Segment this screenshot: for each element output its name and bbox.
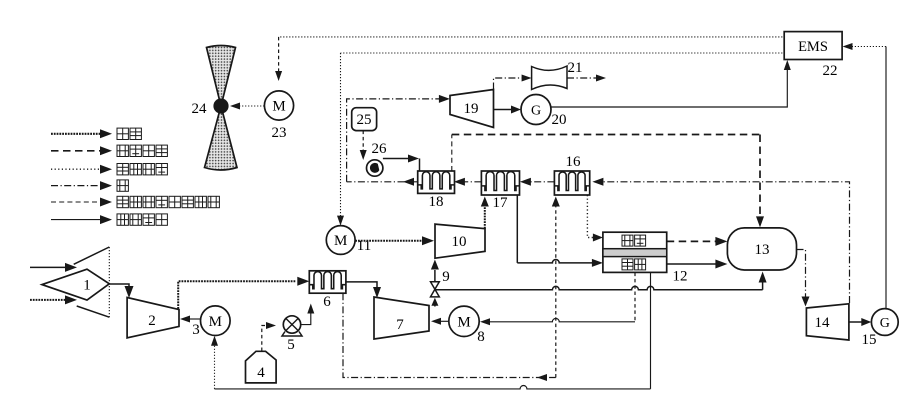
wire valve 9 to compressor 10 — [431, 260, 439, 282]
compressor 7 — [374, 297, 429, 339]
svg-text:G: G — [531, 104, 541, 119]
fuel cell 12 — [603, 232, 688, 284]
svg-text:1: 1 — [83, 278, 91, 294]
wire fuel heat exchanger 18 out — [452, 135, 764, 228]
svg-text:22: 22 — [823, 63, 838, 79]
svg-text:8: 8 — [477, 329, 485, 345]
svg-text:7: 7 — [396, 317, 404, 333]
svg-text:9: 9 — [442, 269, 450, 285]
wire tank 4 to pump 5 — [262, 322, 276, 351]
svg-text:16: 16 — [566, 154, 582, 170]
svg-text:14: 14 — [815, 315, 831, 331]
wire turbine 14 to generator G15 — [849, 318, 871, 326]
svg-text:24: 24 — [192, 101, 208, 117]
compressor 10 — [435, 224, 485, 258]
fuel tank 4 — [246, 351, 277, 383]
combustor 13 — [727, 228, 796, 270]
pump 26 — [367, 141, 388, 176]
svg-text:6: 6 — [323, 294, 331, 310]
turbine 19 — [450, 90, 494, 128]
legend electric power line 电力传输 — [51, 214, 167, 225]
svg-text:25: 25 — [357, 112, 372, 128]
wire EMS control to motor M11 — [337, 53, 782, 226]
wire fuel cell 12 power to motor M3 — [215, 273, 651, 389]
generator G20 — [521, 95, 567, 129]
wire intake to compressor 2 — [109, 284, 133, 298]
motor M23 — [264, 91, 293, 141]
legend hydrocarbon fuel line 碳氢燃料 — [51, 145, 167, 156]
svg-text:M: M — [209, 314, 222, 330]
pump 5 — [282, 316, 302, 353]
heat exchanger 18 — [418, 171, 455, 210]
nozzle 21 — [532, 60, 583, 90]
EMS controller 22 — [784, 32, 842, 79]
compressor 2 — [127, 298, 179, 338]
turbine 14 — [806, 304, 849, 340]
svg-text:10: 10 — [452, 234, 467, 250]
svg-text:15: 15 — [862, 332, 877, 348]
wire nitrogen heat exchanger 16 to 17 — [520, 178, 555, 186]
wire nitrogen heat exchanger 18 to turbine 19 — [347, 95, 450, 186]
svg-text:2: 2 — [148, 313, 156, 329]
wire heat exchanger 6 to compressor 7 — [346, 282, 381, 298]
legend nitrogen line 氮 — [51, 180, 128, 191]
heat exchanger 6 — [309, 271, 346, 310]
svg-text:21: 21 — [568, 60, 583, 76]
wire turbine 14 exhaust to heat exchanger 16 — [592, 178, 849, 303]
intake 1 — [42, 247, 109, 317]
svg-text:17: 17 — [493, 195, 509, 211]
motor M11 — [326, 226, 371, 255]
svg-text:4: 4 — [257, 365, 265, 381]
air inlet arrow upper — [30, 263, 77, 272]
wire anode off-gas fuel cell 12 to combustor 13 — [667, 237, 728, 246]
wire motor M8 shaft to compressor 7 — [431, 318, 449, 325]
svg-text:26: 26 — [372, 141, 388, 157]
svg-text:5: 5 — [287, 337, 295, 353]
svg-text:EMS: EMS — [798, 39, 828, 55]
wire pump 26 to heat exchanger 18 — [383, 155, 420, 171]
legend air line 空气 — [51, 128, 141, 139]
wire compressor 2 to heat exchanger 6 — [178, 277, 309, 309]
wire combustor 13 to turbine 14 — [797, 250, 810, 307]
motor M3 — [192, 306, 230, 338]
wire electric feed to motor M3 — [211, 336, 218, 389]
wire nozzle 21 exhaust — [567, 75, 606, 82]
wire generator G15 to EMS — [843, 43, 887, 308]
wire heat exchanger 16 to fuel cell anode — [587, 195, 603, 242]
wire valve 9 bypass to combustor 13 — [435, 272, 767, 290]
wire motor M3 shaft to compressor 2 — [180, 316, 201, 323]
svg-text:M: M — [334, 233, 347, 249]
svg-text:M: M — [272, 99, 285, 115]
svg-text:M: M — [457, 315, 470, 331]
generator G15 — [862, 309, 899, 348]
svg-text:13: 13 — [755, 242, 770, 258]
svg-text:3: 3 — [192, 322, 200, 338]
wire EMS control to motor M23 fan — [275, 37, 782, 81]
wire turbine 19 to generator G20 — [494, 106, 522, 114]
valve 9 — [431, 269, 450, 297]
wire motor M11 shaft to compressor 10 — [355, 236, 434, 245]
wire turbine 19 to nozzle 21 — [494, 75, 532, 90]
svg-text:18: 18 — [429, 194, 444, 210]
heat exchanger 16 — [554, 154, 589, 195]
svg-text:20: 20 — [552, 112, 567, 128]
wire generator G20 to EMS — [551, 60, 791, 107]
wire fuel cell 12 power to motor M8 — [480, 273, 635, 326]
fan propeller 24 — [192, 46, 238, 171]
motor M8 — [449, 306, 485, 345]
legend fuel-cell anode off-gas line 燃料电池阳极尾气 — [51, 196, 219, 207]
wire motor M23 shaft to fan 24 — [230, 103, 264, 110]
wire 25 to pump 26 — [360, 131, 367, 160]
svg-text:12: 12 — [673, 269, 688, 285]
svg-text:23: 23 — [272, 125, 287, 141]
wire heat exchanger 17 to fuel cell cathode — [517, 195, 603, 267]
wire compressor 10 to heat exchanger 17 — [481, 197, 489, 229]
svg-text:19: 19 — [464, 101, 479, 117]
wire compressor 7 to valve 9 — [431, 298, 438, 307]
wire cathode out fuel cell 12 to combustor 13 — [667, 260, 728, 269]
wire pump 5 to heat exchanger 6 — [301, 304, 315, 325]
air inlet arrow lower — [30, 295, 77, 304]
fuel store 25 — [352, 108, 377, 131]
legend hydrogen-rich gas line 富氢气体 — [51, 164, 167, 175]
heat exchanger 17 — [481, 171, 519, 211]
svg-text:G: G — [880, 316, 890, 331]
wire hydrogen-rich gas to heat exchanger 16 — [343, 197, 560, 382]
wire nitrogen heat exchanger 17 to 18 — [454, 178, 482, 186]
